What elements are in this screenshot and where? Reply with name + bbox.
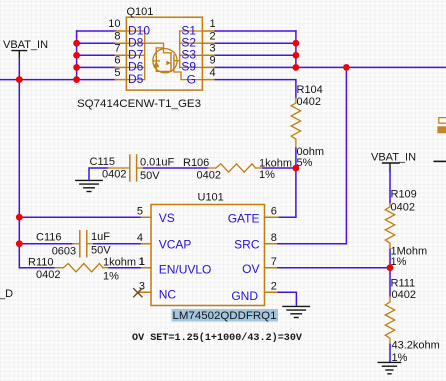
mosfet symbol circle xyxy=(153,49,177,73)
svg-text:0402: 0402 xyxy=(197,170,221,182)
wire C115 to R106 xyxy=(144,167,208,169)
svg-text:R106: R106 xyxy=(183,157,209,169)
wire VBAT_IN stem to main rail xyxy=(18,58,20,80)
svg-text:Q101: Q101 xyxy=(127,6,154,18)
wire S2 row to right bus xyxy=(215,42,296,44)
ground (C115) xyxy=(76,180,102,191)
truncated net tick at right edge xyxy=(434,161,446,163)
junction dots (top layer) xyxy=(16,40,393,271)
capacitor C116 xyxy=(36,231,111,258)
svg-text:5: 5 xyxy=(137,206,143,218)
mosfet body diode bar xyxy=(153,60,159,62)
Q101 internal left D bus xyxy=(144,31,146,80)
svg-text:10: 10 xyxy=(108,18,120,30)
op-amp / controller U101 body box xyxy=(151,205,265,306)
svg-text:6: 6 xyxy=(114,55,120,67)
net label VBAT_IN (right) xyxy=(371,152,416,172)
wire OV pin to divider node xyxy=(278,267,390,269)
wire VS pin to rail xyxy=(19,216,140,218)
wire R111 bottom to ground xyxy=(389,345,391,362)
junction OV node xyxy=(387,264,394,271)
Q101 internal right S bus xyxy=(179,31,181,67)
truncated connector symbol at right edge (outline) xyxy=(439,118,446,124)
wire GND pin to ground xyxy=(278,292,296,306)
svg-text:D5: D5 xyxy=(128,72,144,86)
svg-text:0603: 0603 xyxy=(52,246,76,258)
svg-text:VBAT_IN: VBAT_IN xyxy=(3,39,48,51)
svg-text:8: 8 xyxy=(271,232,277,244)
svg-text:R110: R110 xyxy=(28,257,53,269)
truncated connector symbol at right edge (filled) xyxy=(437,126,446,133)
resistor R111 (vertical, 43.2kohm) xyxy=(385,268,440,364)
highlighted part number LM74502QDDFRQ1 xyxy=(172,309,279,322)
resistor R110 (horizontal, 1kohm) xyxy=(28,257,136,283)
svg-text:R111: R111 xyxy=(391,278,416,290)
wire gate junction down to U101 GATE pin xyxy=(278,168,296,217)
svg-text:0402: 0402 xyxy=(392,289,416,301)
resistor R104 (vertical, 0 ohm) xyxy=(291,84,324,169)
svg-text:1%: 1% xyxy=(103,271,119,283)
no-connect X on NC pin xyxy=(134,289,142,297)
junction VS tap xyxy=(16,214,23,221)
wire C116 to VCAP pin xyxy=(94,243,140,245)
ground (R111) xyxy=(378,362,400,373)
svg-text:2: 2 xyxy=(210,30,216,42)
svg-text:3: 3 xyxy=(210,43,216,55)
svg-text:0.01uF: 0.01uF xyxy=(140,157,175,169)
net label VBAT_IN (top left) xyxy=(3,39,48,58)
svg-text:GND: GND xyxy=(231,289,258,303)
wire main rail horizontal y=79.6 (left) xyxy=(0,79,115,81)
U101 right pin stubs xyxy=(265,217,279,292)
svg-text:1uF: 1uF xyxy=(91,231,110,243)
svg-text:0402: 0402 xyxy=(36,269,60,281)
svg-text:OV: OV xyxy=(242,262,259,276)
junction dots on left bus xyxy=(73,40,80,47)
svg-text:50V: 50V xyxy=(91,245,111,257)
mosfet drain feed xyxy=(145,43,171,53)
svg-text:8: 8 xyxy=(114,30,120,42)
Q101 right pin stubs xyxy=(202,31,215,80)
wire C115 ground stem xyxy=(89,168,108,180)
svg-text:6: 6 xyxy=(271,206,277,218)
svg-text:GATE: GATE xyxy=(228,212,260,226)
svg-text:C115: C115 xyxy=(90,156,115,168)
svg-text:50V: 50V xyxy=(140,170,160,182)
svg-text:2: 2 xyxy=(271,281,277,293)
svg-text:0402: 0402 xyxy=(102,169,126,181)
wire R104 bottom to gate junction xyxy=(295,148,297,168)
svg-text:0402: 0402 xyxy=(297,96,321,108)
transistor Q101 body box xyxy=(126,17,202,90)
wire pin7 row xyxy=(77,54,116,56)
svg-text:_D: _D xyxy=(0,288,13,300)
svg-text:5: 5 xyxy=(114,67,120,79)
Q101 left pin stubs xyxy=(115,31,126,80)
wire R106 to gate junction xyxy=(263,167,296,169)
mosfet source link to S bus xyxy=(174,60,180,62)
svg-text:VS: VS xyxy=(159,211,175,225)
wire pin8 row xyxy=(77,42,116,44)
resistor R106 (horizontal, 1kohm) xyxy=(183,157,292,182)
wire S9 row / main output to right edge xyxy=(215,66,446,68)
Q101 internal right row links xyxy=(180,31,203,67)
svg-text:1: 1 xyxy=(139,256,145,268)
mosfet channel bar xyxy=(170,53,172,72)
wire VBAT_IN right stem xyxy=(389,171,391,204)
junction VCAP tap xyxy=(16,240,23,247)
svg-text:1: 1 xyxy=(210,18,216,30)
U101 left pin stubs xyxy=(138,217,151,292)
svg-text:R109: R109 xyxy=(391,189,417,201)
capacitor C115 xyxy=(90,155,175,182)
svg-text:4: 4 xyxy=(137,232,143,244)
junction output to SRC riser xyxy=(343,64,350,71)
resistor R109 (vertical, 1Mohm) xyxy=(385,189,427,269)
mosfet body diode triangle xyxy=(153,61,159,67)
svg-text:SQ7414CENW-T1_GE3: SQ7414CENW-T1_GE3 xyxy=(77,98,201,110)
svg-text:C116: C116 xyxy=(36,232,61,244)
wire R110 to EN/UVLO pin xyxy=(109,267,140,269)
svg-text:0402: 0402 xyxy=(391,202,415,214)
mosfet gate lead to G pin xyxy=(174,69,203,79)
svg-text:1kohm: 1kohm xyxy=(103,257,136,269)
svg-text:OV SET=1.25(1+1000/43.2)=30V: OV SET=1.25(1+1000/43.2)=30V xyxy=(132,332,303,344)
wire SRC pin to output riser xyxy=(278,67,346,243)
mosfet gate bar xyxy=(173,55,175,69)
mosfet body diode line xyxy=(156,48,171,72)
svg-text:43.2kohm: 43.2kohm xyxy=(392,340,440,352)
junction gate node xyxy=(293,165,300,172)
svg-text:LM74502QDDFRQ1: LM74502QDDFRQ1 xyxy=(173,310,277,322)
Q101 internal left row links xyxy=(126,31,144,80)
svg-text:SRC: SRC xyxy=(234,238,260,252)
wire pin10 row xyxy=(77,30,116,32)
wire rail corner to R110 xyxy=(19,267,55,269)
svg-text:9: 9 xyxy=(210,55,216,67)
wire right source bus xyxy=(295,31,297,67)
junction at VBAT_IN tap xyxy=(16,76,23,83)
wire VCAP row left segment xyxy=(19,243,73,245)
junction dots on right bus xyxy=(293,40,300,47)
svg-text:U101: U101 xyxy=(198,192,224,204)
wire pin6 row xyxy=(77,66,116,68)
wire gate row to R104 xyxy=(215,80,296,98)
wire left pin bus x=76.6 xyxy=(76,31,78,80)
svg-text:7: 7 xyxy=(271,256,277,268)
ground (U101 GND) xyxy=(283,306,309,317)
svg-text:7: 7 xyxy=(114,43,120,55)
wire S3 row to right bus xyxy=(215,54,296,56)
svg-text:1%: 1% xyxy=(259,169,275,181)
mosfet body arrow xyxy=(166,61,171,66)
wire vertical rail x=19.3 down to R110 row xyxy=(18,80,20,268)
svg-text:4: 4 xyxy=(210,67,216,79)
svg-text:R104: R104 xyxy=(297,84,323,96)
wire S1 row to right bus xyxy=(215,30,296,32)
svg-text:G: G xyxy=(187,72,196,86)
svg-text:VCAP: VCAP xyxy=(159,238,192,252)
wire R109 bottom to OV node xyxy=(389,250,391,268)
svg-text:NC: NC xyxy=(159,288,177,302)
svg-text:EN/UVLO: EN/UVLO xyxy=(159,262,212,276)
svg-text:VBAT_IN: VBAT_IN xyxy=(371,152,416,164)
